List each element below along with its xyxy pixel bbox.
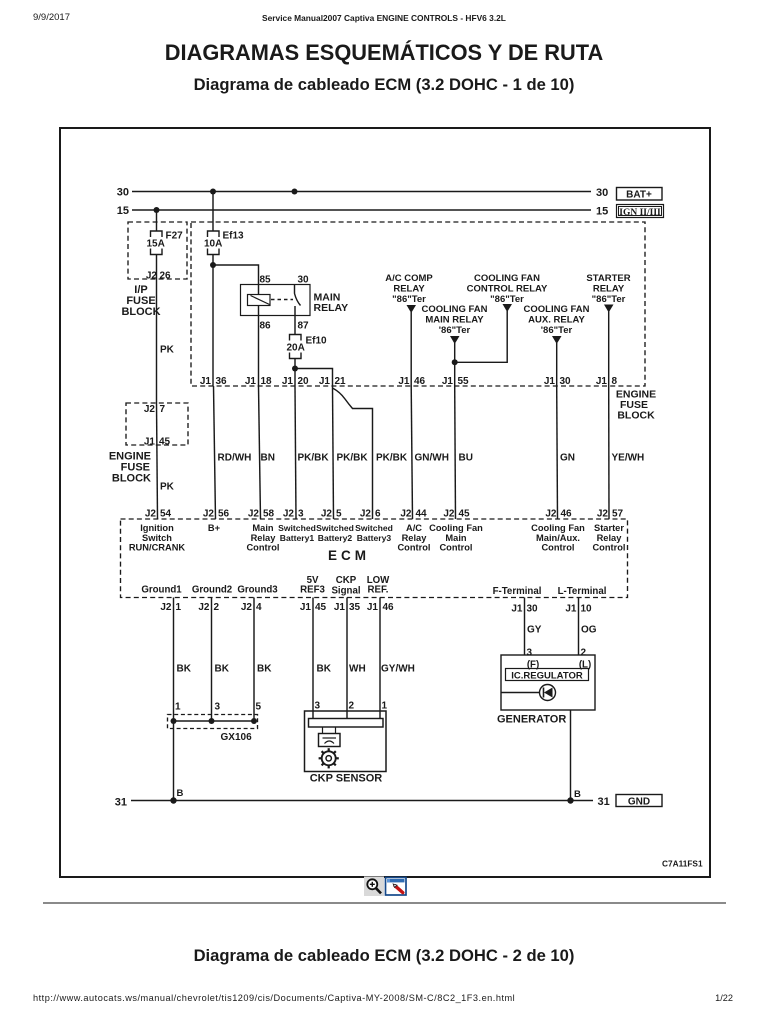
wire PK ignition feed — [157, 279, 175, 403]
svg-text:F-Terminal: F-Terminal — [493, 586, 542, 597]
svg-text:RELAY: RELAY — [593, 284, 625, 295]
junction dot cooling fan main — [452, 359, 458, 365]
terminal J2|5 — [316, 509, 354, 543]
wire ground2 BK — [212, 598, 230, 722]
junction dot ground bus left — [170, 797, 176, 803]
wire pin86 main relay control — [259, 306, 275, 520]
footer page number — [715, 993, 733, 1003]
wire ground1 BK — [174, 598, 192, 722]
svg-text:ECM: ECM — [328, 548, 370, 563]
node IGN II/III — [617, 205, 664, 218]
svg-text:Ground2: Ground2 — [192, 585, 232, 596]
svg-text:4: 4 — [256, 602, 262, 613]
wire PK to ECM — [157, 403, 175, 519]
terminal J1|55 — [442, 376, 469, 387]
svg-text:'86"Ter: '86"Ter — [439, 325, 471, 336]
terminal J2|57 — [592, 509, 625, 553]
svg-text:1: 1 — [176, 602, 182, 613]
svg-text:18: 18 — [261, 376, 273, 387]
svg-text:PK/BK: PK/BK — [337, 453, 369, 464]
svg-text:J1: J1 — [144, 437, 156, 448]
svg-text:30: 30 — [527, 604, 539, 615]
svg-text:Battery1: Battery1 — [280, 533, 315, 543]
svg-text:RD/WH: RD/WH — [218, 453, 252, 464]
terminal J1|20 — [282, 376, 309, 387]
svg-text:15A: 15A — [147, 239, 165, 250]
svg-text:BAT+: BAT+ — [626, 190, 652, 201]
terminal J2|58 — [246, 509, 279, 553]
svg-text:1: 1 — [175, 702, 181, 713]
svg-text:B: B — [177, 788, 184, 799]
svg-text:1: 1 — [382, 701, 388, 712]
svg-text:B+: B+ — [208, 523, 221, 533]
svg-text:3: 3 — [298, 509, 304, 520]
page title — [0, 40, 768, 66]
wire switched battery3 S-bend — [333, 388, 408, 519]
svg-text:6: 6 — [375, 509, 381, 520]
svg-text:GY/WH: GY/WH — [381, 664, 415, 675]
svg-text:46: 46 — [383, 602, 395, 613]
terminal J1|46 engine fuse block — [398, 376, 425, 387]
wire switched battery2 — [333, 387, 369, 519]
svg-text:10: 10 — [581, 604, 593, 615]
svg-text:COOLING FAN: COOLING FAN — [422, 304, 488, 315]
svg-text:J1: J1 — [200, 376, 212, 387]
svg-text:MAIN RELAY: MAIN RELAY — [425, 315, 484, 326]
footer url — [33, 993, 515, 1003]
wire 5V REF3 BK — [313, 598, 332, 719]
svg-text:J1: J1 — [282, 376, 294, 387]
ECM bottom labels — [141, 575, 606, 597]
terminal J2|7 — [144, 404, 166, 415]
svg-text:46: 46 — [414, 376, 426, 387]
engine fuse block box — [191, 222, 656, 422]
svg-text:3: 3 — [315, 701, 321, 712]
svg-text:GND: GND — [628, 797, 650, 808]
svg-text:J1: J1 — [442, 376, 454, 387]
drawing number C7A11FS1 — [662, 859, 703, 869]
svg-text:REF.: REF. — [368, 585, 389, 596]
svg-text:J2: J2 — [360, 509, 372, 520]
wire B+ feed — [213, 265, 251, 519]
svg-text:BK: BK — [215, 664, 230, 675]
wire L-terminal OG — [579, 598, 597, 659]
svg-text:A/C COMP: A/C COMP — [385, 273, 433, 284]
svg-text:J1: J1 — [367, 602, 379, 613]
svg-text:REF3: REF3 — [300, 585, 325, 596]
terminal J2|44 — [397, 509, 430, 553]
engine fuse block 2 box — [109, 403, 188, 485]
wire GX106 to ground bus — [174, 721, 184, 801]
svg-text:30: 30 — [560, 376, 572, 387]
svg-text:31: 31 — [598, 796, 610, 808]
svg-text:J2: J2 — [241, 602, 253, 613]
svg-text:58: 58 — [263, 509, 275, 520]
svg-text:J2: J2 — [145, 509, 157, 520]
svg-text:J2: J2 — [443, 509, 455, 520]
svg-text:Cooling Fan: Cooling Fan — [531, 523, 585, 533]
svg-text:J2: J2 — [321, 509, 333, 520]
svg-text:Battery2: Battery2 — [318, 533, 353, 543]
svg-text:Control: Control — [592, 543, 625, 553]
svg-text:Control: Control — [246, 543, 279, 553]
junction dot bus30/Ef13 — [210, 189, 216, 195]
svg-text:26: 26 — [160, 271, 172, 282]
terminal J1|8 — [596, 376, 618, 387]
svg-text:IC.REGULATOR: IC.REGULATOR — [511, 671, 583, 682]
svg-text:J2: J2 — [597, 509, 609, 520]
wire pin87 to Ef10 — [294, 316, 296, 335]
svg-text:15: 15 — [596, 206, 608, 218]
svg-text:21: 21 — [335, 376, 347, 387]
svg-text:Ground1: Ground1 — [141, 585, 182, 596]
terminal J2|6 — [355, 509, 393, 543]
svg-text:Switched: Switched — [355, 523, 393, 533]
svg-text:BK: BK — [177, 664, 192, 675]
terminal J2|2 — [198, 602, 219, 613]
svg-text:J1: J1 — [544, 376, 556, 387]
wire F-terminal GY — [525, 598, 542, 659]
svg-text:87: 87 — [298, 321, 310, 332]
svg-text:J1: J1 — [319, 376, 331, 387]
svg-text:35: 35 — [349, 602, 361, 613]
zoom-in icon — [364, 877, 384, 897]
svg-text:Control: Control — [541, 543, 574, 553]
svg-text:30: 30 — [117, 187, 129, 199]
svg-text:J1: J1 — [398, 376, 410, 387]
terminal J2|45 — [429, 509, 483, 553]
svg-text:Control: Control — [397, 543, 430, 553]
svg-text:Control: Control — [439, 543, 472, 553]
junction dot Ef13/relay coil — [210, 262, 216, 268]
fuse F27 15A — [147, 210, 184, 279]
svg-text:J2: J2 — [146, 271, 158, 282]
svg-text:Relay: Relay — [597, 533, 623, 543]
svg-text:Starter: Starter — [594, 523, 624, 533]
svg-text:Main: Main — [252, 523, 273, 533]
svg-text:30: 30 — [298, 275, 310, 286]
wire switched battery1 — [295, 369, 329, 520]
svg-text:J1: J1 — [245, 376, 257, 387]
svg-text:A/C: A/C — [406, 523, 422, 533]
svg-text:GX106: GX106 — [221, 732, 253, 743]
node BAT+ — [617, 188, 663, 201]
fuse Ef13 10A — [204, 192, 244, 266]
svg-text:3: 3 — [215, 702, 221, 713]
svg-text:RELAY: RELAY — [393, 284, 425, 295]
svg-text:5: 5 — [336, 509, 342, 520]
wire to main relay coil — [213, 265, 259, 295]
wire ground3 BK — [254, 598, 272, 722]
svg-text:Main/Aux.: Main/Aux. — [536, 533, 580, 543]
svg-text:PK: PK — [160, 345, 175, 356]
svg-text:2: 2 — [581, 648, 587, 659]
terminal J1|35 — [334, 602, 361, 613]
svg-text:Signal: Signal — [331, 586, 360, 597]
svg-text:20A: 20A — [287, 343, 305, 354]
generator — [497, 655, 595, 726]
generator diode — [501, 685, 556, 701]
svg-text:AUX. RELAY: AUX. RELAY — [528, 315, 585, 326]
wire branch to J1|21 — [295, 369, 333, 388]
svg-text:54: 54 — [160, 509, 172, 520]
CKP sensor — [305, 711, 387, 785]
svg-text:STARTER: STARTER — [586, 273, 630, 284]
svg-text:2: 2 — [214, 602, 220, 613]
terminal J2|3 — [278, 509, 316, 543]
svg-text:Ef13: Ef13 — [223, 231, 245, 242]
svg-text:J1: J1 — [596, 376, 608, 387]
I/P fuse block box — [121, 222, 187, 318]
terminal J1|30 engine fuse block — [544, 376, 571, 387]
svg-text:COOLING FAN: COOLING FAN — [474, 273, 540, 284]
svg-text:"86"Ter: "86"Ter — [490, 294, 524, 305]
terminal J1|18 — [245, 376, 272, 387]
svg-text:F27: F27 — [166, 231, 184, 242]
svg-text:WH: WH — [349, 664, 366, 675]
svg-text:GENERATOR: GENERATOR — [497, 714, 566, 726]
svg-text:J1: J1 — [511, 604, 523, 615]
wire bus 30 — [117, 187, 609, 200]
svg-text:COOLING FAN: COOLING FAN — [524, 304, 590, 315]
wire bus 31 — [115, 796, 610, 809]
svg-text:GY: GY — [527, 625, 542, 636]
main relay U1 — [241, 275, 349, 332]
svg-text:2: 2 — [349, 701, 355, 712]
junction dot Ef10 output — [292, 366, 298, 372]
svg-text:20: 20 — [298, 376, 310, 387]
terminal J1|45 engine fuse block — [144, 437, 171, 448]
svg-text:3: 3 — [527, 648, 533, 659]
svg-text:45: 45 — [315, 602, 327, 613]
svg-text:PK: PK — [160, 482, 175, 493]
ECM box — [121, 519, 628, 598]
svg-text:GN/WH: GN/WH — [415, 453, 449, 464]
svg-text:45: 45 — [459, 509, 471, 520]
svg-text:IGN II/III: IGN II/III — [619, 208, 661, 218]
svg-text:RUN/CRANK: RUN/CRANK — [129, 543, 186, 553]
svg-text:"86"Ter: "86"Ter — [592, 294, 626, 305]
svg-text:PK/BK: PK/BK — [376, 453, 408, 464]
terminal J1|36 — [200, 376, 227, 387]
terminal J2|54 — [129, 509, 186, 553]
separator rule — [43, 902, 726, 904]
open-window icon — [386, 878, 407, 896]
page subtitle — [0, 75, 768, 95]
svg-text:45: 45 — [159, 437, 171, 448]
svg-text:'86"Ter: '86"Ter — [541, 325, 573, 336]
svg-text:J2: J2 — [248, 509, 260, 520]
svg-text:BN: BN — [261, 453, 275, 464]
svg-text:56: 56 — [218, 509, 230, 520]
svg-text:B: B — [574, 789, 581, 800]
svg-text:Relay: Relay — [402, 533, 428, 543]
node GND — [616, 795, 662, 808]
starter relay feed — [586, 273, 644, 519]
terminal J1|10 — [565, 604, 592, 615]
svg-text:RELAY: RELAY — [314, 302, 349, 314]
svg-text:57: 57 — [612, 509, 624, 520]
svg-text:Switch: Switch — [142, 533, 172, 543]
svg-text:Ef10: Ef10 — [306, 336, 328, 347]
svg-text:GN: GN — [560, 453, 575, 464]
svg-text:J2: J2 — [160, 602, 172, 613]
svg-text:Switched: Switched — [278, 523, 316, 533]
svg-text:36: 36 — [216, 376, 228, 387]
wire bus 15 — [117, 205, 609, 218]
ground splice GX106 — [168, 715, 258, 744]
svg-text:J1: J1 — [300, 602, 312, 613]
svg-text:Relay: Relay — [251, 533, 277, 543]
svg-text:YE/WH: YE/WH — [612, 453, 645, 464]
terminal J1|30 ECM — [511, 604, 538, 615]
svg-text:J2: J2 — [283, 509, 295, 520]
header date — [33, 12, 70, 23]
terminal J2|46 — [531, 509, 585, 553]
cooling fan control relay feed — [455, 273, 548, 362]
terminal J2|26 — [146, 271, 171, 282]
junction dot bus30/relay30 — [292, 189, 298, 195]
svg-text:OG: OG — [581, 625, 597, 636]
svg-text:BLOCK: BLOCK — [617, 410, 655, 422]
svg-text:J2: J2 — [198, 602, 210, 613]
svg-text:Battery3: Battery3 — [357, 533, 392, 543]
wire generator B to ground bus — [571, 710, 582, 801]
terminal J1|45 ECM — [300, 602, 327, 613]
fuse Ef10 20A — [287, 335, 328, 369]
svg-text:CKP SENSOR: CKP SENSOR — [310, 773, 383, 785]
svg-text:J2: J2 — [400, 509, 412, 520]
svg-text:55: 55 — [458, 376, 470, 387]
svg-text:86: 86 — [260, 321, 272, 332]
svg-text:Ground3: Ground3 — [237, 585, 278, 596]
svg-text:5: 5 — [256, 702, 262, 713]
terminal J1|46 ECM — [367, 602, 394, 613]
svg-text:7: 7 — [160, 404, 166, 415]
svg-text:30: 30 — [596, 187, 608, 199]
cooling fan aux relay feed — [524, 304, 590, 519]
svg-text:44: 44 — [416, 509, 428, 520]
terminal J1|21 — [319, 376, 346, 387]
svg-text:C7A11FS1: C7A11FS1 — [662, 859, 703, 869]
terminal J2|1 — [160, 602, 181, 613]
terminal J2|56 — [203, 509, 230, 534]
svg-text:10A: 10A — [204, 239, 222, 250]
svg-text:J2: J2 — [545, 509, 557, 520]
CKP reluctor gear icon — [319, 748, 339, 768]
svg-text:8: 8 — [612, 376, 618, 387]
svg-text:Ignition: Ignition — [140, 523, 174, 533]
wire CKP signal WH — [347, 598, 366, 719]
svg-text:15: 15 — [117, 205, 129, 217]
svg-text:46: 46 — [561, 509, 573, 520]
junction dot ground bus right — [567, 797, 573, 803]
wire LOW REF GY/WH — [380, 598, 415, 719]
svg-text:BK: BK — [257, 664, 272, 675]
svg-text:J1: J1 — [334, 602, 346, 613]
svg-text:BLOCK: BLOCK — [112, 473, 151, 485]
svg-text:Switched: Switched — [316, 523, 354, 533]
svg-text:31: 31 — [115, 797, 127, 809]
svg-text:CKP: CKP — [336, 575, 357, 586]
svg-text:BU: BU — [459, 453, 473, 464]
svg-text:Main: Main — [445, 533, 466, 543]
svg-text:J2: J2 — [203, 509, 215, 520]
svg-text:J2: J2 — [144, 404, 156, 415]
terminal J2|4 — [241, 602, 262, 613]
svg-text:Cooling Fan: Cooling Fan — [429, 523, 483, 533]
svg-text:CONTROL RELAY: CONTROL RELAY — [467, 284, 548, 295]
A/C comp relay feed — [385, 273, 449, 519]
svg-text:85: 85 — [260, 275, 272, 286]
svg-text:BK: BK — [317, 664, 332, 675]
header document title — [0, 13, 768, 23]
svg-text:L-Terminal: L-Terminal — [558, 586, 607, 597]
svg-text:PK/BK: PK/BK — [298, 453, 330, 464]
svg-text:J1: J1 — [565, 604, 577, 615]
junction dot bus15/F27 — [154, 207, 160, 213]
svg-text:BLOCK: BLOCK — [121, 306, 160, 318]
second subtitle — [0, 946, 768, 966]
cooling fan main relay feed — [422, 304, 488, 519]
